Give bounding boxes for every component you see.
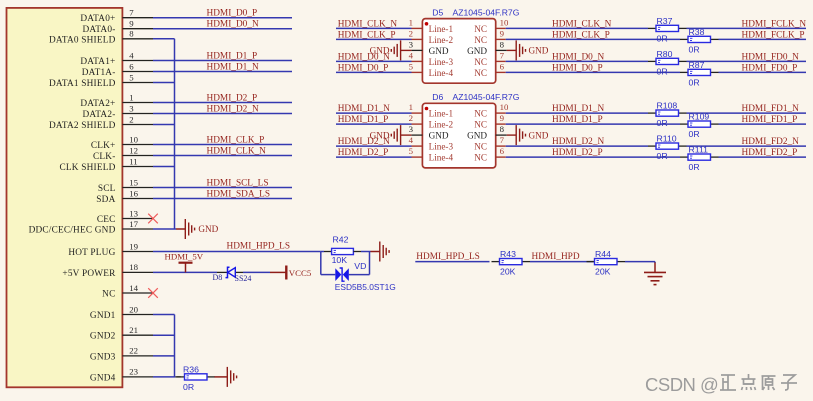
svg-text:HDMI_SDA_LS: HDMI_SDA_LS (207, 190, 271, 200)
svg-text:19: 19 (129, 241, 138, 251)
svg-text:HDMI_D1_P: HDMI_D1_P (552, 115, 603, 125)
svg-text:18: 18 (129, 262, 138, 272)
svg-text:20K: 20K (595, 267, 611, 277)
svg-text:GND2: GND2 (90, 332, 116, 342)
svg-text:Line-1: Line-1 (429, 109, 454, 119)
svg-text:DATA2-: DATA2- (83, 110, 116, 120)
svg-text:NC: NC (474, 120, 487, 130)
svg-text:R44: R44 (595, 249, 611, 259)
svg-text:HDMI_D1_N: HDMI_D1_N (207, 63, 259, 73)
svg-text:NC: NC (474, 35, 487, 45)
svg-text:HDMI_D0_P: HDMI_D0_P (207, 9, 258, 19)
svg-text:Line-1: Line-1 (429, 24, 454, 34)
svg-text:NC: NC (474, 57, 487, 67)
svg-text:R36: R36 (183, 364, 199, 374)
svg-text:SCL: SCL (98, 184, 116, 194)
svg-text:9: 9 (500, 28, 505, 38)
svg-text:8: 8 (500, 39, 505, 49)
svg-text:D8: D8 (213, 273, 223, 282)
svg-text:NC: NC (474, 68, 487, 78)
svg-text:AZ1045-04F.R7G: AZ1045-04F.R7G (453, 92, 520, 102)
svg-text:HDMI_CLK_P: HDMI_CLK_P (552, 30, 610, 40)
svg-text:HDMI_D2_N: HDMI_D2_N (338, 137, 390, 147)
svg-text:R43: R43 (500, 249, 516, 259)
svg-text:HDMI_D1_P: HDMI_D1_P (207, 52, 258, 62)
svg-text:GND1: GND1 (90, 311, 116, 321)
svg-text:GND: GND (429, 131, 449, 141)
svg-text:7: 7 (500, 135, 505, 145)
svg-text:HDMI_D0_N: HDMI_D0_N (207, 20, 259, 30)
svg-text:0R: 0R (689, 44, 700, 54)
svg-text:HDMI_CLK_N: HDMI_CLK_N (552, 19, 612, 29)
svg-text:0R: 0R (689, 77, 700, 87)
svg-text:HDMI_HPD_LS: HDMI_HPD_LS (416, 252, 480, 262)
svg-text:NC: NC (474, 24, 487, 34)
svg-text:R37: R37 (657, 16, 673, 26)
svg-text:8: 8 (500, 124, 505, 134)
svg-text:Line-4: Line-4 (429, 153, 454, 163)
svg-text:ESD5B5.0ST1G: ESD5B5.0ST1G (335, 282, 396, 292)
svg-text:HDMI_CLK_N: HDMI_CLK_N (338, 19, 398, 29)
svg-text:DDC/CEC/HEC GND: DDC/CEC/HEC GND (29, 226, 116, 236)
svg-text:20K: 20K (500, 267, 516, 277)
svg-text:R87: R87 (689, 60, 705, 70)
svg-text:15: 15 (129, 177, 138, 187)
svg-text:10: 10 (500, 102, 509, 112)
svg-text:Line-2: Line-2 (429, 35, 454, 45)
svg-text:20: 20 (129, 304, 138, 314)
svg-text:HDMI_FD1_N: HDMI_FD1_N (742, 104, 800, 114)
svg-text:Line-4: Line-4 (429, 68, 454, 78)
svg-text:NC: NC (474, 109, 487, 119)
svg-text:NC: NC (102, 290, 115, 300)
svg-text:HDMI_D2_P: HDMI_D2_P (552, 148, 603, 158)
svg-text:HDMI_CLK_P: HDMI_CLK_P (338, 30, 396, 40)
svg-text:CLK-: CLK- (93, 152, 116, 162)
svg-text:2: 2 (129, 114, 133, 124)
svg-text:HDMI_FD0_N: HDMI_FD0_N (742, 52, 800, 62)
svg-text:GND3: GND3 (90, 352, 116, 362)
svg-text:3: 3 (409, 39, 414, 49)
svg-text:HDMI_D0_P: HDMI_D0_P (338, 63, 389, 73)
svg-text:DATA0 SHIELD: DATA0 SHIELD (49, 35, 116, 45)
svg-text:R111: R111 (689, 145, 709, 155)
svg-text:CLK+: CLK+ (91, 141, 116, 151)
svg-text:5: 5 (129, 72, 134, 82)
svg-text:0R: 0R (657, 66, 668, 76)
svg-text:10: 10 (500, 17, 509, 27)
svg-text:3: 3 (129, 103, 134, 113)
svg-text:CLK SHIELD: CLK SHIELD (60, 163, 116, 173)
svg-text:HDMI_D2_P: HDMI_D2_P (338, 148, 389, 158)
svg-text:5: 5 (409, 146, 414, 156)
svg-text:HDMI_D1_N: HDMI_D1_N (552, 104, 604, 114)
svg-text:HDMI_FCLK_P: HDMI_FCLK_P (742, 30, 805, 40)
svg-text:DATA0-: DATA0- (83, 25, 116, 35)
svg-text:17: 17 (129, 219, 138, 229)
svg-text:NC: NC (474, 153, 487, 163)
svg-text:16: 16 (129, 188, 138, 198)
svg-text:10: 10 (129, 134, 138, 144)
svg-text:2: 2 (409, 28, 413, 38)
svg-text:HDMI_HPD: HDMI_HPD (532, 252, 580, 262)
svg-text:10K: 10K (332, 255, 348, 265)
svg-text:3: 3 (409, 124, 414, 134)
svg-text:Line-2: Line-2 (429, 120, 454, 130)
svg-text:+5V POWER: +5V POWER (62, 269, 116, 279)
svg-text:4: 4 (409, 50, 414, 60)
svg-text:14: 14 (129, 283, 138, 293)
svg-text:HDMI_FD1_P: HDMI_FD1_P (742, 115, 798, 125)
svg-text:9: 9 (500, 113, 505, 123)
svg-text:HDMI_FD2_P: HDMI_FD2_P (742, 148, 798, 158)
svg-text:6: 6 (129, 61, 134, 71)
svg-text:21: 21 (129, 325, 138, 335)
svg-text:HDMI_D0_N: HDMI_D0_N (552, 52, 604, 62)
svg-text:0R: 0R (657, 33, 668, 43)
svg-text:5: 5 (409, 61, 414, 71)
svg-text:0R: 0R (657, 118, 668, 128)
svg-text:D5: D5 (432, 7, 443, 17)
svg-text:R108: R108 (657, 101, 678, 111)
svg-text:DATA0+: DATA0+ (80, 14, 115, 24)
svg-text:R42: R42 (333, 235, 349, 245)
svg-text:13: 13 (129, 208, 138, 218)
svg-text:HDMI_FD2_N: HDMI_FD2_N (742, 137, 800, 147)
svg-text:HDMI_CLK_N: HDMI_CLK_N (207, 147, 267, 157)
svg-text:6: 6 (500, 61, 505, 71)
svg-text:HDMI_D2_P: HDMI_D2_P (207, 94, 258, 104)
svg-text:HDMI_D0_P: HDMI_D0_P (552, 63, 603, 73)
svg-text:GND: GND (529, 46, 549, 56)
svg-text:VCC5: VCC5 (289, 268, 312, 278)
svg-text:Line-3: Line-3 (429, 57, 454, 67)
svg-text:1: 1 (129, 92, 133, 102)
svg-text:1: 1 (409, 17, 413, 27)
svg-text:HDMI_CLK_P: HDMI_CLK_P (207, 136, 265, 146)
svg-text:DATA1+: DATA1+ (80, 57, 115, 67)
svg-text:GND: GND (467, 131, 487, 141)
svg-text:GND4: GND4 (90, 373, 116, 383)
svg-text:0R: 0R (657, 151, 668, 161)
svg-text:HDMI_FCLK_N: HDMI_FCLK_N (742, 19, 807, 29)
svg-text:GND: GND (467, 46, 487, 56)
svg-text:CSDN @: CSDN @ (645, 374, 718, 395)
svg-text:VD: VD (354, 261, 366, 271)
svg-text:7: 7 (129, 8, 134, 18)
svg-text:22: 22 (129, 346, 138, 356)
svg-text:DATA2 SHIELD: DATA2 SHIELD (49, 121, 116, 131)
svg-text:HOT PLUG: HOT PLUG (68, 248, 115, 258)
svg-text:2: 2 (409, 113, 413, 123)
svg-text:7: 7 (500, 50, 505, 60)
svg-text:R109: R109 (689, 112, 710, 122)
svg-text:HDMI_D2_N: HDMI_D2_N (207, 105, 259, 115)
svg-text:R38: R38 (689, 27, 705, 37)
svg-text:6: 6 (500, 146, 505, 156)
svg-text:SDA: SDA (96, 195, 115, 205)
svg-text:12: 12 (129, 145, 138, 155)
svg-text:HDMI_D0_N: HDMI_D0_N (338, 52, 390, 62)
svg-text:HDMI_D1_N: HDMI_D1_N (338, 104, 390, 114)
svg-text:AZ1045-04F.R7G: AZ1045-04F.R7G (453, 7, 520, 17)
svg-text:NC: NC (474, 142, 487, 152)
svg-text:0R: 0R (183, 382, 194, 392)
svg-text:R80: R80 (657, 49, 673, 59)
svg-text:HDMI_HPD_LS: HDMI_HPD_LS (227, 242, 291, 252)
svg-text:8: 8 (129, 29, 134, 39)
svg-text:4: 4 (409, 135, 414, 145)
svg-text:HDMI_D2_N: HDMI_D2_N (552, 137, 604, 147)
svg-text:R110: R110 (657, 134, 677, 144)
svg-text:DAT1A-: DAT1A- (82, 68, 116, 78)
svg-text:SS24: SS24 (235, 274, 252, 283)
svg-text:23: 23 (129, 367, 138, 377)
svg-text:HDMI_FD0_P: HDMI_FD0_P (742, 63, 798, 73)
svg-text:9: 9 (129, 19, 134, 29)
svg-text:0R: 0R (689, 129, 700, 139)
svg-text:HDMI_SCL_LS: HDMI_SCL_LS (207, 179, 269, 189)
svg-text:GND: GND (429, 46, 449, 56)
svg-text:HDMI_D1_P: HDMI_D1_P (338, 115, 389, 125)
svg-text:11: 11 (129, 156, 137, 166)
svg-text:CEC: CEC (97, 215, 116, 225)
svg-text:HDMI_5V: HDMI_5V (165, 252, 204, 262)
svg-text:0R: 0R (689, 162, 700, 172)
svg-text:GND: GND (529, 130, 549, 140)
svg-text:D6: D6 (432, 92, 443, 102)
svg-text:GND: GND (198, 224, 218, 234)
svg-text:4: 4 (129, 50, 134, 60)
svg-text:1: 1 (409, 102, 413, 112)
svg-text:DATA1 SHIELD: DATA1 SHIELD (49, 79, 116, 89)
svg-text:DATA2+: DATA2+ (80, 99, 115, 109)
svg-text:Line-3: Line-3 (429, 142, 454, 152)
